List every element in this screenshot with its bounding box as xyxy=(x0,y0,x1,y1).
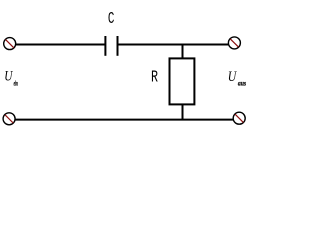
wire resistor bottom stub xyxy=(182,104,184,119)
terminal BL (input bottom) xyxy=(3,113,15,125)
svg-text:U: U xyxy=(4,68,13,84)
svg-text:U: U xyxy=(228,69,237,85)
terminal TR (output top) xyxy=(228,37,240,49)
wire top left segment xyxy=(16,44,105,46)
node U_ein (input voltage label) xyxy=(4,68,18,87)
terminal BR (output bottom) xyxy=(233,112,245,124)
terminal TL (input top) xyxy=(4,38,16,50)
capacitor C xyxy=(105,36,117,56)
wire bottom rail xyxy=(15,119,233,121)
wire top right segment xyxy=(118,44,229,46)
svg-text:C: C xyxy=(108,9,115,28)
wire junction stub to resistor top xyxy=(182,45,184,59)
node U_aus (output voltage label) xyxy=(228,69,247,88)
svg-text:ein: ein xyxy=(14,80,18,88)
resistor R xyxy=(170,58,195,104)
svg-text:R: R xyxy=(151,68,158,87)
svg-text:aus: aus xyxy=(238,79,246,87)
